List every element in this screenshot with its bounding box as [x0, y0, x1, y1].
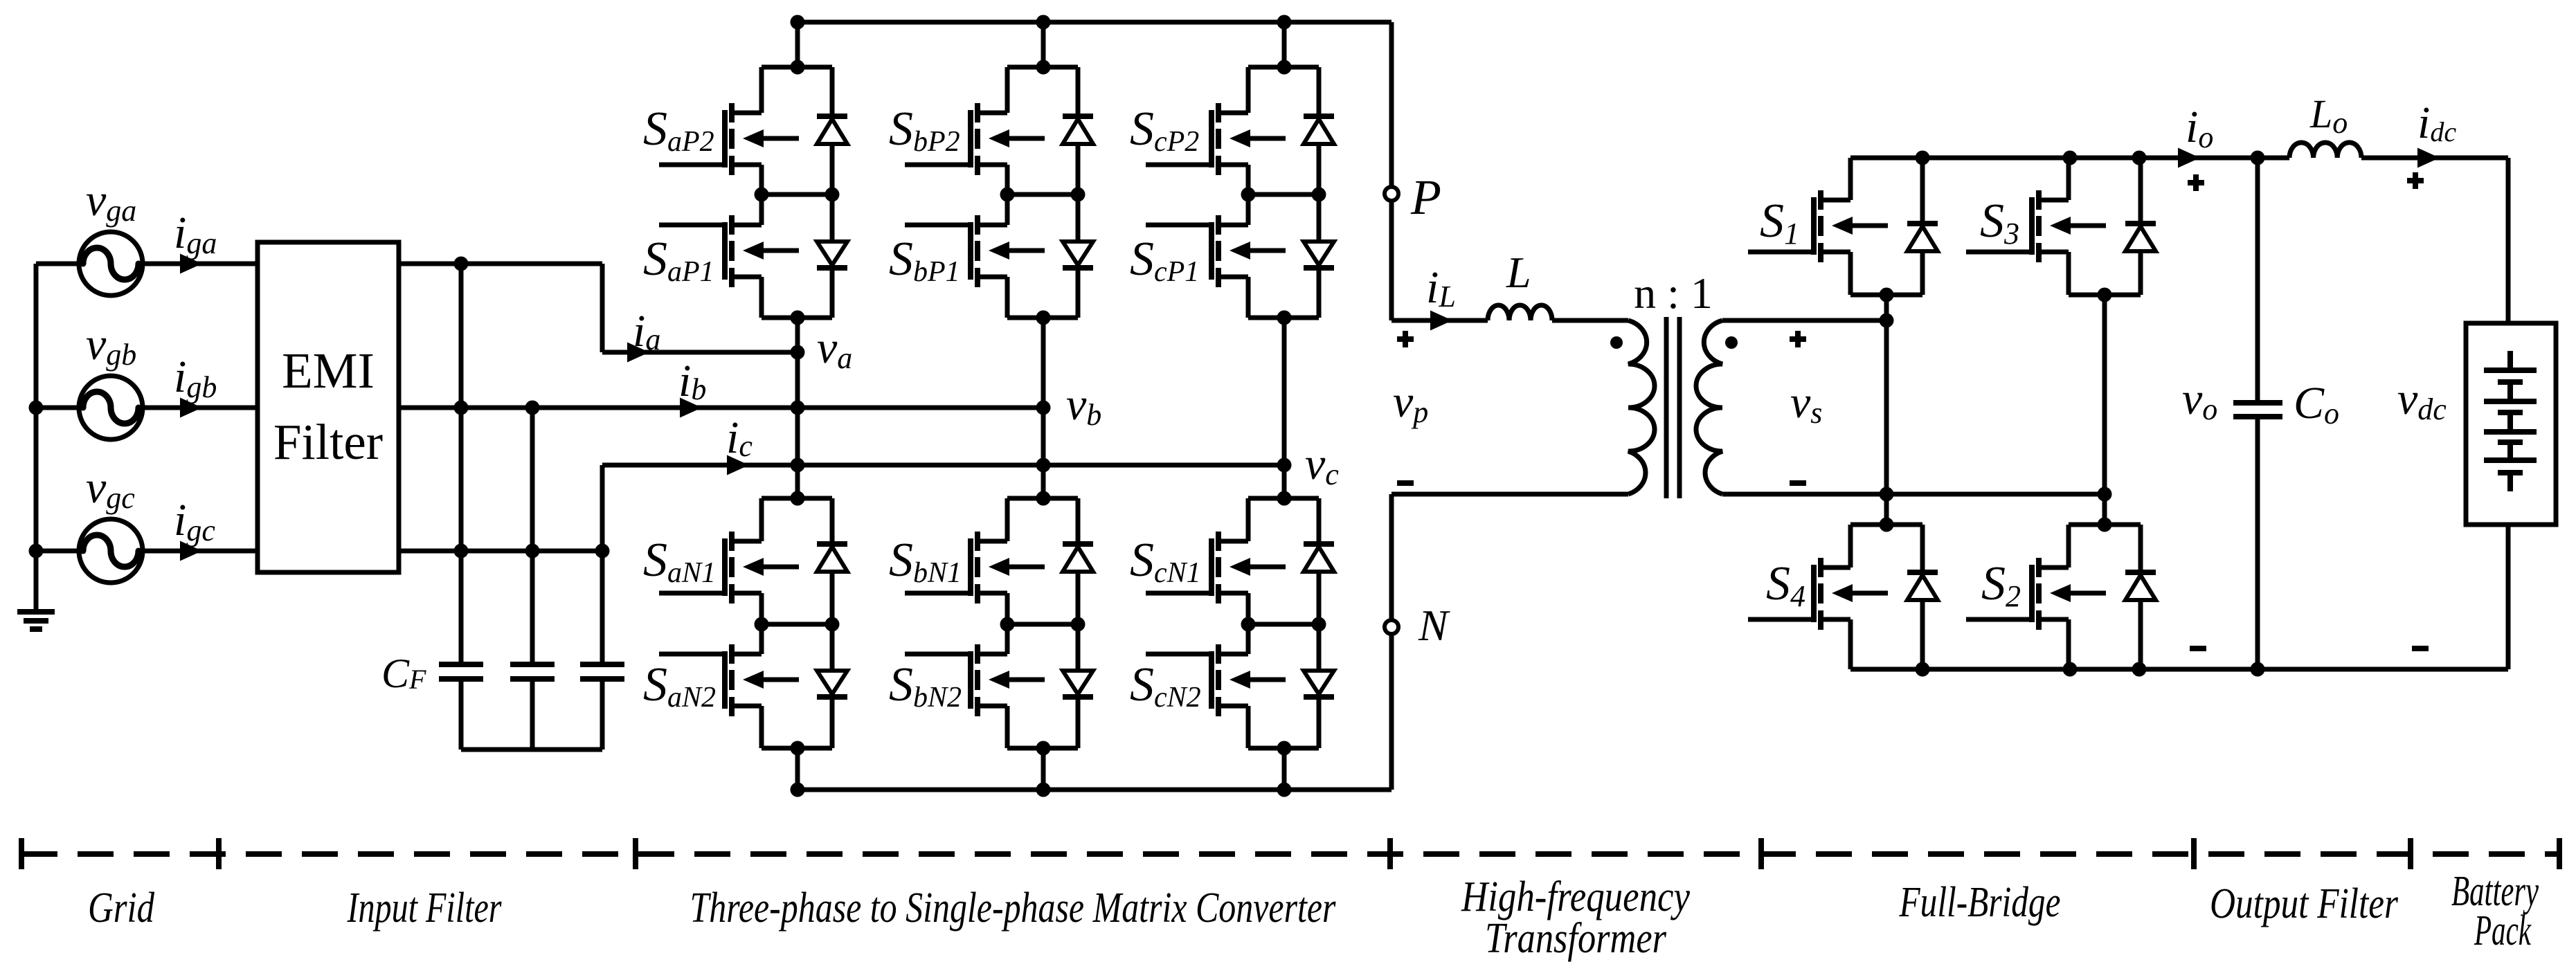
wire top stub cell b: [1041, 22, 1046, 67]
wire inductor to primary: [1552, 318, 1628, 323]
node cell a middle right: [825, 188, 840, 202]
zone tick x=31: [19, 838, 24, 869]
battery cells symbol: [2484, 351, 2537, 491]
wire cell c centre vertical: [1282, 318, 1287, 498]
label minus v_p: [1397, 480, 1414, 486]
node cap1 x phase c: [454, 544, 469, 559]
node cell b middle left: [1000, 188, 1015, 202]
wire cell S1 bottom: [1850, 293, 1922, 298]
svg-text:High-frequency: High-frequency: [1461, 873, 1690, 920]
arrow i_ga: [180, 254, 202, 274]
node cell b top stub: [1036, 60, 1051, 75]
diode D_bP2: [1063, 116, 1093, 144]
wire source v_gb left: [36, 406, 79, 410]
wire phase b EMI to v_b: [399, 406, 1043, 410]
wire P to primary top: [1389, 201, 1394, 320]
capacitor C_F plate pair 3: [580, 664, 624, 679]
wire diode branch D_aN1 upper: [830, 498, 835, 544]
wire cell a left branch mid1: [759, 165, 764, 194]
svg-text:Transformer: Transformer: [1485, 915, 1667, 962]
svg-text:Three-phase to Single-phase Ma: Three-phase to Single-phase Matrix Conve…: [690, 884, 1337, 932]
wire diode branch D_bP2 lower: [1076, 144, 1081, 194]
MOSFET S_aN1: [659, 532, 799, 603]
wire cell a middle link: [762, 192, 832, 197]
wire diode S1 upper: [1920, 158, 1925, 224]
wire N to bottom rail: [1389, 634, 1394, 790]
zone tick x=918: [633, 838, 638, 869]
wire cap3 lower: [600, 679, 605, 750]
wire cell b middle link: [1007, 622, 1078, 627]
wire rail to P: [1389, 22, 1394, 187]
wire cell S2 bottom: [2069, 667, 2141, 672]
arrow i_a: [627, 343, 649, 363]
wire cell c bottom: [1248, 746, 1319, 751]
node cap2 x phase c: [525, 544, 540, 559]
diode D_S1: [1907, 224, 1938, 251]
MOSFET S4: [1748, 558, 1888, 630]
node bridge top rail: [2132, 151, 2147, 165]
wire cell bP2/P1 top: [1007, 65, 1078, 70]
node S4 top: [1880, 518, 1894, 532]
zone tick x=3169: [2191, 838, 2197, 869]
zone tick x=316: [216, 838, 222, 869]
wire cell a middle link: [762, 622, 832, 627]
node phase b cap tap: [525, 401, 540, 415]
wire diode branch D_cP2 upper: [1317, 67, 1322, 116]
wire diode branch D_cP2 lower: [1317, 144, 1322, 194]
wire primary bottom lead: [1391, 492, 1628, 497]
wire diode branch D_cN2 lower: [1317, 697, 1322, 748]
diode D_bN1: [1063, 544, 1093, 572]
node cell a middle left: [755, 188, 769, 202]
svg-text:n : 1: n : 1: [1634, 269, 1713, 318]
MOSFET S_cP2: [1146, 103, 1286, 175]
diode D_cP1: [1304, 242, 1334, 268]
wire diode S3 lower: [2138, 251, 2143, 295]
wire cell S2 left upper: [2066, 525, 2071, 568]
wire matrix bottom rail: [798, 788, 1391, 792]
MOSFET S_cN2: [1146, 644, 1286, 716]
winding dot primary: [1610, 336, 1623, 349]
node top rail cell a: [791, 15, 805, 30]
MOSFET S_cP1: [1146, 215, 1286, 287]
wire cell c left branch upper: [1246, 67, 1251, 113]
MOSFET S1: [1748, 190, 1888, 262]
node cell c middle left: [1241, 188, 1256, 202]
MOSFET S2: [1966, 558, 2106, 630]
svg-text:Pack: Pack: [2474, 907, 2532, 954]
wire left grid bus: [34, 264, 39, 612]
wire diode branch D_aP1 lower: [830, 268, 835, 318]
node bottom rail cell c: [1277, 783, 1292, 797]
zone dashed line: [21, 851, 2559, 857]
wire cell a left branch mid2: [759, 624, 764, 654]
node cell c middle right: [1312, 617, 1326, 632]
AC source v_ga: [79, 232, 143, 296]
MOSFET S_bP2: [905, 103, 1045, 175]
node cell b middle left: [1000, 617, 1015, 632]
label minus v_s: [1790, 480, 1806, 486]
terminal P: [1385, 187, 1398, 201]
node bridge bottom rail: [2251, 662, 2265, 677]
wire left leg vertical: [1884, 295, 1889, 525]
node phase c cap tap: [595, 544, 610, 559]
wire battery bottom: [2506, 525, 2511, 669]
wire cell a left branch upper: [759, 67, 764, 113]
svg-text:EMI: EMI: [282, 343, 375, 399]
wire diode branch D_aN1 lower: [830, 572, 835, 624]
diode D_S3: [2125, 224, 2156, 251]
wire cell S2 left lower: [2066, 619, 2071, 669]
node cell b middle right: [1071, 188, 1086, 202]
node on cell b vertical: [1036, 458, 1051, 473]
wire i_a to v_a: [602, 350, 798, 355]
wire diode S4 upper: [1920, 525, 1925, 572]
wire source v_gc right: [143, 549, 258, 554]
svg-text:Output Filter: Output Filter: [2210, 880, 2399, 927]
wire cap bottom bus: [461, 747, 602, 752]
wire cell c left branch lower: [1246, 277, 1251, 318]
label minus battery: [2412, 646, 2429, 651]
MOSFET S_aN2: [659, 644, 799, 716]
node cell b bottom: [1036, 311, 1051, 325]
wire cell b left branch lower: [1005, 277, 1010, 318]
wire cell S3 left lower: [2066, 252, 2071, 295]
wire diode S2 upper: [2138, 525, 2143, 572]
node on cell c vertical: [1277, 491, 1292, 506]
wire cell c bottom: [1248, 316, 1319, 320]
wire cell S3 top: [2069, 156, 2141, 161]
wire cell c left branch lower: [1246, 706, 1251, 748]
node on cell a vertical: [791, 458, 805, 473]
node bottom rail cell a: [791, 783, 805, 797]
wire cell bN1/N2 top: [1007, 496, 1078, 501]
wire diode branch D_bP1 upper: [1076, 194, 1081, 242]
wire cell cP2/P1 top: [1248, 65, 1319, 70]
wire cell a bottom: [762, 316, 832, 320]
wire cell aN1/N2 top: [762, 496, 832, 501]
node cell c top stub: [1277, 60, 1292, 75]
wire source v_ga right: [143, 262, 258, 266]
svg-text:Input Filter: Input Filter: [347, 884, 502, 932]
wire diode branch D_bN2 lower: [1076, 697, 1081, 748]
node cell a middle left: [755, 617, 769, 632]
svg-text:Full-Bridge: Full-Bridge: [1899, 879, 2061, 926]
MOSFET S_cN1: [1146, 532, 1286, 603]
node cell a middle right: [825, 617, 840, 632]
wire cap2 upper: [530, 408, 535, 662]
wire cell b centre vertical: [1041, 318, 1046, 498]
node on cell b vertical: [1036, 401, 1051, 415]
wire top stub cell a: [795, 22, 800, 67]
wire cell S4 top: [1850, 523, 1922, 527]
arrow i_c: [727, 455, 749, 475]
svg-text:N: N: [1418, 601, 1450, 650]
wire diode S2 lower: [2138, 600, 2143, 669]
wire cell a centre vertical: [795, 318, 800, 498]
node cell c top stub: [1277, 491, 1292, 506]
node cell b bottom: [1036, 741, 1051, 756]
label minus output: [2190, 646, 2206, 651]
wire diode branch D_aN2 upper: [830, 624, 835, 671]
node on cell a vertical: [791, 491, 805, 506]
node bridge top rail: [1916, 151, 1930, 165]
AC source v_gc: [79, 519, 143, 583]
wire cell b left branch mid1: [1005, 165, 1010, 194]
transformer primary winding: [1628, 320, 1655, 494]
wire cell S3 left upper: [2066, 158, 2071, 200]
diode D_S2: [2125, 572, 2156, 600]
wire source v_gc left: [36, 549, 79, 554]
wire cell S1 left upper: [1848, 158, 1853, 200]
wire phase c jog up: [600, 465, 605, 551]
wire cell b left branch mid2: [1005, 194, 1010, 225]
zone tick x=2544: [1758, 838, 1764, 869]
wire bridge top rail left: [1850, 156, 2289, 161]
node cell b top stub: [1036, 491, 1051, 506]
label plus battery: [2407, 172, 2424, 189]
node cell b middle right: [1071, 617, 1086, 632]
arrow i_b: [680, 398, 702, 418]
node on cell a vertical: [791, 401, 805, 415]
wire source v_gb right: [143, 406, 258, 410]
wire diode branch D_cN1 lower: [1317, 572, 1322, 624]
wire cap2 lower: [530, 679, 535, 750]
wire top stub cell c: [1282, 22, 1287, 67]
wire primary top lead: [1391, 318, 1488, 323]
wire cell a left branch lower: [759, 277, 764, 318]
node on cell b vertical: [1036, 311, 1051, 325]
node top rail cell b: [1036, 15, 1051, 30]
wire C_o branch lower: [2255, 417, 2260, 669]
wire diode branch D_bP1 lower: [1076, 268, 1081, 318]
MOSFET S_bN1: [905, 532, 1045, 603]
node bridge top rail: [2251, 151, 2265, 165]
wire cap1 upper: [459, 264, 464, 662]
zone tick x=3482: [2408, 838, 2413, 869]
capacitor C_F plate pair 2: [510, 664, 555, 679]
wire diode S3 upper: [2138, 158, 2143, 224]
wire bridge top rail right: [2361, 156, 2508, 161]
node bridge bottom rail: [1916, 662, 1930, 677]
node v_s plus junction: [1880, 314, 1894, 328]
wire bottom stub cell a: [795, 748, 800, 790]
wire cell S1 top: [1850, 156, 1922, 161]
zone tick x=2008: [1387, 838, 1393, 869]
label plus v_s: [1790, 331, 1806, 347]
wire secondary top lead: [1722, 318, 1886, 323]
wire battery top: [2506, 158, 2511, 323]
node bridge bottom rail: [2063, 662, 2078, 677]
wire cell b left branch lower: [1005, 706, 1010, 748]
wire diode S1 lower: [1920, 251, 1925, 295]
diode D_S4: [1907, 572, 1938, 600]
diode D_aP1: [817, 242, 847, 268]
wire diode branch D_aP1 upper: [830, 194, 835, 242]
wire cell aP2/P1 top: [762, 65, 832, 70]
svg-text:Grid: Grid: [88, 884, 155, 932]
node bottom rail cell b: [1036, 783, 1051, 797]
arrow i_gb: [180, 398, 202, 418]
wire cell S4 left upper: [1848, 525, 1853, 568]
wire cell b bottom: [1007, 316, 1078, 320]
wire cell c left branch upper: [1246, 498, 1251, 541]
node cell a bottom: [791, 311, 805, 325]
AC source v_gb: [79, 376, 143, 439]
inductor L: [1488, 305, 1552, 320]
wire cell S1 left lower: [1848, 252, 1853, 295]
wire cell a left branch mid1: [759, 593, 764, 624]
node left leg x v_s minus: [1880, 487, 1894, 502]
capacitor C_F plate pair 1: [439, 664, 483, 679]
wire bottom stub cell b: [1041, 748, 1046, 790]
MOSFET S_bP1: [905, 215, 1045, 287]
diode D_aP2: [817, 116, 847, 144]
node on cell a vertical: [791, 345, 805, 360]
node junction bus-c: [29, 544, 44, 559]
transformer secondary winding: [1696, 320, 1722, 494]
battery pack box: [2466, 323, 2556, 525]
winding dot secondary: [1725, 336, 1738, 349]
wire matrix top rail: [798, 20, 1391, 25]
wire phase a jog down: [600, 264, 605, 352]
diode D_cP2: [1304, 116, 1334, 144]
diode D_cN1: [1304, 544, 1334, 572]
wire source v_ga left: [36, 262, 79, 266]
wire cell c left branch mid1: [1246, 165, 1251, 194]
wire cell b left branch mid1: [1005, 593, 1010, 624]
node S3 bottom: [2098, 288, 2112, 302]
MOSFET S_aP1: [659, 215, 799, 287]
wire cell a left branch mid2: [759, 194, 764, 225]
node cell a top stub: [791, 491, 805, 506]
diode D_bP1: [1063, 242, 1093, 268]
wire cell cN1/N2 top: [1248, 496, 1319, 501]
MOSFET S3: [1966, 190, 2106, 262]
diode D_aN2: [817, 671, 847, 697]
wire cell a left branch upper: [759, 498, 764, 541]
wire primary bottom to N: [1389, 494, 1394, 620]
wire cell b middle link: [1007, 192, 1078, 197]
node on cell a vertical: [791, 311, 805, 325]
wire cap3 upper: [600, 551, 605, 662]
wire cell b left branch upper: [1005, 67, 1010, 113]
arrow i_o: [2178, 148, 2200, 168]
wire diode branch D_bN1 lower: [1076, 572, 1081, 624]
node cell c bottom: [1277, 741, 1292, 756]
node cell c bottom: [1277, 311, 1292, 325]
node cap1 x phase b: [454, 401, 469, 415]
wire cell b bottom: [1007, 746, 1078, 751]
node cell c middle right: [1312, 188, 1326, 202]
wire cell S4 bottom: [1850, 667, 1922, 672]
wire phase a EMI to jog: [399, 262, 602, 266]
transformer core: [1666, 317, 1679, 498]
svg-text:P: P: [1410, 170, 1441, 225]
node on cell b vertical: [1036, 491, 1051, 506]
ground: [17, 612, 55, 629]
wire cell S4 left lower: [1848, 619, 1853, 669]
capacitor C_o: [2233, 403, 2282, 417]
wire bottom stub cell c: [1282, 748, 1287, 790]
wire diode branch D_aN2 lower: [830, 697, 835, 748]
node on cell c vertical: [1277, 311, 1292, 325]
node v_s minus junction: [2098, 487, 2112, 502]
MOSFET S_aP2: [659, 103, 799, 175]
arrow i_gc: [180, 541, 202, 561]
node top rail cell c: [1277, 15, 1292, 30]
label plus v_p: [1397, 331, 1414, 347]
wire cell a bottom: [762, 746, 832, 751]
inductor L_o: [2289, 143, 2361, 158]
wire diode branch D_aP2 upper: [830, 67, 835, 116]
node cell a bottom: [791, 741, 805, 756]
node junction bus-b: [29, 401, 44, 415]
diode D_cN2: [1304, 671, 1334, 697]
wire diode branch D_bP2 upper: [1076, 67, 1081, 116]
EMI filter box: [258, 242, 399, 572]
wire cell c left branch mid2: [1246, 194, 1251, 225]
wire cell b left branch upper: [1005, 498, 1010, 541]
wire cell c middle link: [1248, 192, 1319, 197]
wire diode branch D_cN1 upper: [1317, 498, 1322, 544]
terminal N: [1385, 620, 1398, 634]
svg-text:L: L: [1506, 248, 1531, 297]
wire C_o branch upper: [2255, 158, 2260, 403]
wire cell c left branch mid2: [1246, 624, 1251, 654]
wire cell S3 bottom: [2069, 293, 2141, 298]
node S2 top: [2098, 518, 2112, 532]
wire cell c left branch mid1: [1246, 593, 1251, 624]
MOSFET S_bN2: [905, 644, 1045, 716]
node cell a top stub: [791, 60, 805, 75]
wire cell b left branch mid2: [1005, 624, 1010, 654]
wire diode S4 lower: [1920, 600, 1925, 669]
wire cell S2 top: [2069, 523, 2141, 527]
wire diode branch D_cP1 upper: [1317, 194, 1322, 242]
wire diode branch D_aP2 lower: [830, 144, 835, 194]
diode D_aN1: [817, 544, 847, 572]
wire diode branch D_cP1 lower: [1317, 268, 1322, 318]
node on cell c vertical: [1277, 458, 1292, 473]
wire secondary bottom lead: [1722, 492, 2105, 497]
wire diode branch D_bN1 upper: [1076, 498, 1081, 544]
node S1 bottom: [1880, 288, 1894, 302]
node phase a cap tap: [454, 257, 469, 271]
arrow i_dc: [2417, 148, 2440, 168]
wire cell a left branch lower: [759, 706, 764, 748]
label plus output: [2188, 174, 2204, 191]
zone tick x=3697: [2557, 838, 2562, 869]
node bridge bottom rail: [2132, 662, 2147, 677]
wire right leg vertical: [2102, 295, 2107, 525]
svg-text:Filter: Filter: [273, 414, 383, 470]
wire diode branch D_bN2 upper: [1076, 624, 1081, 671]
wire cell c middle link: [1248, 622, 1319, 627]
arrow i_L: [1430, 311, 1452, 331]
node bridge top rail: [2063, 151, 2078, 165]
wire i_c to v_c: [602, 463, 1284, 468]
wire bridge bottom rail: [1850, 667, 2508, 672]
wire cap1 lower: [459, 679, 464, 750]
diode D_bN2: [1063, 671, 1093, 697]
wire diode branch D_cN2 upper: [1317, 624, 1322, 671]
node cell c middle left: [1241, 617, 1256, 632]
wire phase c EMI to jog: [399, 549, 602, 554]
